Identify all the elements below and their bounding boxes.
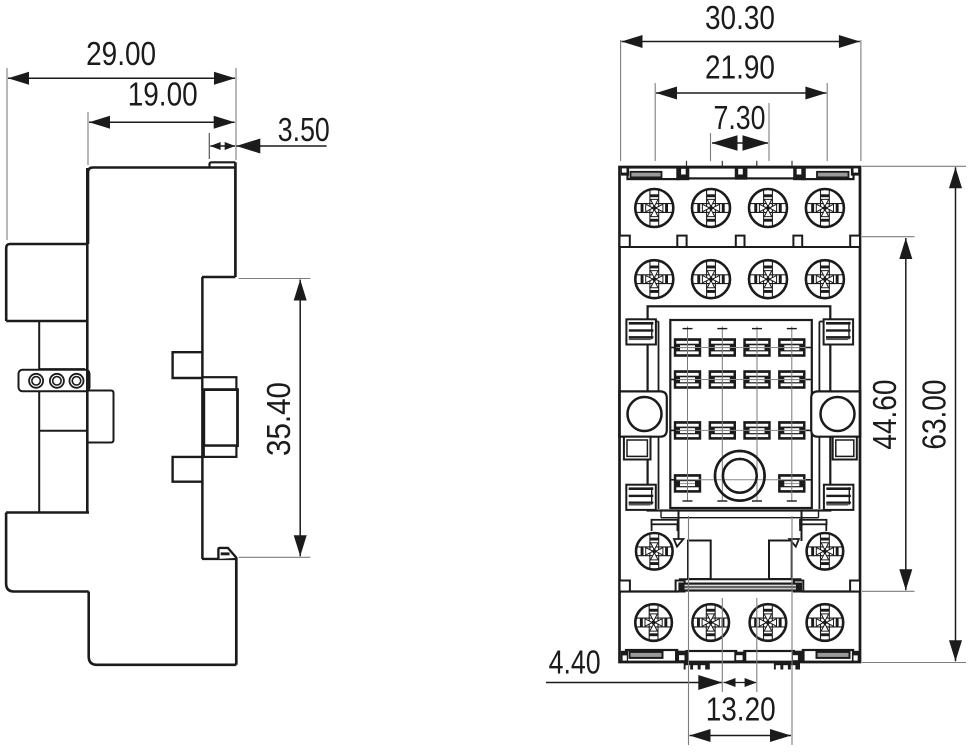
front view: contact slots rows <box>674 338 701 357</box>
front view: top comb slot 2 <box>686 168 737 179</box>
dimension 30.30 extension lines <box>620 40 622 161</box>
dimension 63.00 line and arrows <box>955 167 957 661</box>
dimension 3.50 arrows <box>210 145 235 147</box>
front view: retaining latch bottom left <box>626 485 656 510</box>
left view: foot step <box>6 513 89 592</box>
front view: division notches row2 <box>620 581 630 592</box>
left view: lower right wall <box>235 558 238 665</box>
front view: bottom comb slot 2 <box>687 651 737 662</box>
front view: ejector bracket left <box>652 520 678 525</box>
front view: top comb gap fillers <box>676 167 689 180</box>
svg-text:3.50: 3.50 <box>278 111 330 148</box>
front view: retaining latch bottom right <box>824 485 854 510</box>
front view: ejector bottom step <box>679 578 802 580</box>
front view: top band corner notches <box>621 167 629 176</box>
front view: step line under housing <box>660 511 662 517</box>
dimension 4.40 leader line <box>546 682 722 684</box>
front view: screw terminals row 4 <box>635 604 672 641</box>
left view: rear step at y321 <box>6 320 87 323</box>
front view: ejector cavity right wall <box>801 511 803 542</box>
front view: contact matrix frame <box>670 320 812 508</box>
front view: division notch squares beside ejector <box>676 581 685 592</box>
front view: contact grid row lines <box>671 347 810 349</box>
svg-text:21.90: 21.90 <box>705 48 775 85</box>
dimension 44.60 extension lines <box>862 236 915 238</box>
left view: upper retaining tab <box>173 352 203 378</box>
front view: central housing <box>648 306 831 510</box>
left view: upper right edge <box>234 162 237 277</box>
dimension 21.90 line and arrows <box>656 92 826 94</box>
front view: body outline <box>620 167 861 662</box>
front view: centre hole rings <box>715 451 765 501</box>
dimension 21.90 extension lines <box>654 83 656 161</box>
front view: mounting foot left <box>684 663 710 670</box>
dimension 7.30 arrows <box>712 142 768 144</box>
left view: rear column left edge <box>38 322 40 512</box>
left view: shelf above DIN clip <box>202 558 236 560</box>
dimension 19.00 line and arrows <box>89 121 235 123</box>
svg-text:13.20: 13.20 <box>706 690 776 727</box>
svg-text:35.40: 35.40 <box>260 382 297 456</box>
front view: contact grid column lines <box>687 327 689 502</box>
left view: top edge and upper-left wall <box>88 168 235 245</box>
dimension 35.40 line and arrows <box>299 280 301 557</box>
left view: flange bottom lip <box>204 446 237 457</box>
dimension 63.00 extension lines <box>862 165 966 167</box>
svg-text:30.30: 30.30 <box>705 0 775 36</box>
dimension 4.40 arrows <box>724 682 757 684</box>
front view: ejector window left <box>688 541 711 580</box>
svg-text:63.00: 63.00 <box>916 380 953 450</box>
front view: ejector cavity left wall <box>678 511 680 542</box>
svg-text:44.60: 44.60 <box>866 380 903 450</box>
left view: horizontal at y512 <box>6 511 89 513</box>
left view: top mounting tab <box>210 162 236 167</box>
front view: bottom comb slot 4 <box>803 650 853 662</box>
front view: retaining latch top left <box>626 319 656 344</box>
front view: top comb slot 4 <box>803 168 854 180</box>
svg-text:7.30: 7.30 <box>714 99 766 136</box>
left view: inner wall vertical <box>86 168 89 512</box>
left view: flange top lip <box>202 377 236 389</box>
dimension 35.40 extension lines <box>239 278 311 280</box>
dimension 13.20 line and arrows <box>690 735 792 737</box>
dimension 19.00 extension line <box>87 112 89 165</box>
front view: bottom band corner notches <box>621 651 628 663</box>
dimension 30.30 line and arrows <box>622 41 860 43</box>
front view: centre hole <box>715 451 765 501</box>
left view: lower retaining tab <box>173 457 203 482</box>
front view: division line above bottom terminal row <box>620 590 679 592</box>
svg-text:29.00: 29.00 <box>86 35 156 72</box>
left view: internal thin line above terminal block <box>39 368 85 370</box>
left view: bottom edge <box>89 592 237 665</box>
left view: flange main block <box>204 390 238 446</box>
front view: bottom comb slot 3 <box>744 651 794 662</box>
front view: division notches row1 <box>620 236 630 247</box>
front view: datum stubs on top edge <box>686 161 688 166</box>
front view: mounting foot right <box>774 663 800 670</box>
front view: ejector window right <box>769 541 792 580</box>
front view: top comb slot 1 <box>628 168 679 180</box>
front view: bottom comb slot 1 <box>626 650 677 662</box>
dimension 13.20 extension lines <box>688 516 690 745</box>
front view: ejector bottom bar <box>680 584 801 591</box>
dimension 7.30 extension lines <box>710 133 712 161</box>
left view: DIN rail clip <box>218 548 236 559</box>
left view: terminal block with 3 terminals <box>19 370 90 392</box>
left view: rear wall between steps <box>6 244 87 321</box>
front view: top comb slot 3 <box>744 168 796 179</box>
front view: screw terminals row 1 <box>635 189 673 227</box>
front view: ejector flag right <box>789 539 799 547</box>
front view: right guide ear and hole <box>811 391 860 436</box>
front view: division line below first terminal row <box>620 246 861 248</box>
dimension 44.60 line and arrows <box>905 238 907 590</box>
front view: right small window <box>833 437 857 460</box>
front view: inner channel walls <box>658 322 660 510</box>
front view: screw terminals row 2 <box>635 260 673 298</box>
front view: left guide ear and hole <box>620 391 667 436</box>
dimension 29.00 line and arrows <box>8 77 235 79</box>
front view: left small window <box>624 437 651 460</box>
dimension 29.00 extension lines <box>6 68 8 240</box>
svg-text:19.00: 19.00 <box>128 76 198 113</box>
front view: ejector flag left <box>674 539 684 547</box>
front view: ejector bracket right <box>800 520 827 525</box>
front view: retaining latch top right <box>824 319 854 344</box>
left view: right step at y277 <box>202 276 235 278</box>
left view: internal line at y430 <box>39 430 87 432</box>
front view: screw terminals row 3 <box>636 533 673 570</box>
front view: bottom comb gap fillers <box>675 651 689 663</box>
svg-text:4.40: 4.40 <box>549 644 601 681</box>
dimension 3.50 tick <box>208 133 210 159</box>
left view: step block right of column <box>87 391 113 443</box>
left view: right wall <box>201 277 204 559</box>
